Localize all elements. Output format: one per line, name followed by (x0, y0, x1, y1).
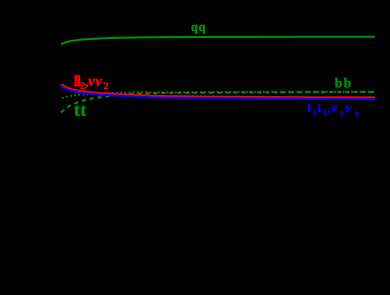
svg-text:b: b (335, 75, 343, 90)
svg-text:t: t (74, 100, 80, 120)
svg-text:t: t (80, 100, 86, 120)
label qq (green) (191, 20, 206, 34)
svg-text:ν: ν (331, 100, 337, 115)
svg-text:ν: ν (95, 74, 102, 90)
curve qq (green solid) (61, 37, 375, 45)
svg-text:l: l (308, 103, 311, 115)
svg-text:ν: ν (88, 74, 95, 90)
label ll2,nunu2 (red) (74, 74, 109, 92)
curve bb (green dotted) (62, 92, 375, 99)
svg-text:l: l (318, 103, 321, 115)
svg-text:2: 2 (104, 82, 109, 92)
label bb (green) (335, 75, 351, 90)
svg-text:q: q (199, 20, 206, 34)
label l1l1,nu1nu1 (blue) (308, 100, 359, 119)
svg-text:1: 1 (355, 109, 359, 119)
svg-text:q: q (191, 20, 198, 34)
label tt (green) (74, 100, 86, 120)
svg-text:,: , (327, 103, 330, 115)
curve tt (green dashed) (61, 92, 375, 112)
svg-text:b: b (344, 75, 352, 90)
curve l1l1,nu1nu1 (blue solid) (61, 86, 375, 99)
svg-text:ν: ν (346, 100, 352, 115)
curve ll2,nunu2 (red solid) (61, 84, 375, 97)
svg-text:1: 1 (340, 109, 344, 119)
svg-text:1: 1 (313, 108, 317, 118)
